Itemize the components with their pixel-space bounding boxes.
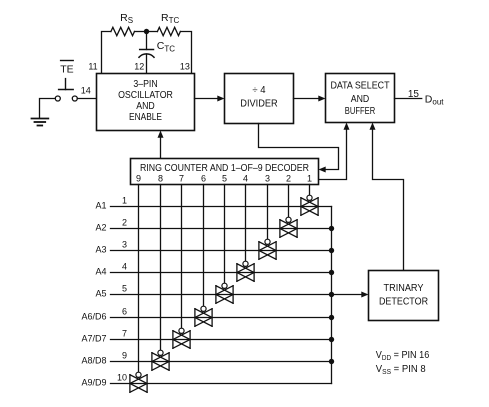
svg-text:7: 7 (122, 329, 127, 339)
wire (pin 13 net: RTC to oscillator pin 13) (180, 32, 191, 74)
svg-text:12: 12 (134, 62, 144, 72)
transmission gate (row A1, decoder output 1) (301, 195, 318, 215)
svg-text:5: 5 (122, 284, 127, 294)
svg-text:5: 5 (222, 174, 227, 184)
transmission gate (row A9/D9, decoder output 9) (130, 372, 147, 392)
svg-text:11: 11 (88, 62, 97, 72)
wire (row A4) (111, 272, 332, 274)
svg-text:A3: A3 (95, 244, 106, 254)
svg-text:3–PIN: 3–PIN (133, 79, 157, 90)
svg-text:1: 1 (122, 196, 127, 206)
svg-text:4: 4 (243, 174, 248, 184)
wire (decoder output 2 column) (288, 185, 290, 218)
svg-text:A6/D6: A6/D6 (81, 311, 106, 321)
wire (pin 11 net: RS to oscillator pin 11) (102, 32, 111, 74)
wire (decoder output 7 column) (181, 185, 183, 329)
svg-text:AND: AND (136, 101, 155, 112)
svg-text:1: 1 (307, 174, 312, 184)
svg-text:BUFFER: BUFFER (345, 106, 375, 117)
resistor RTC (157, 12, 180, 36)
wire (decoder output 5 column) (224, 185, 226, 284)
transmission gate (row A2, decoder output 2) (280, 217, 297, 237)
junction (row A6/D6 to bus) (329, 315, 334, 320)
wire (row A7/D7) (111, 339, 332, 341)
wire (divider feedback to ring counter) (259, 124, 339, 170)
junction (row A7/D7 to bus) (329, 337, 334, 342)
block U1: 3-PIN OSCILLATOR AND ENABLE (97, 74, 195, 131)
wire (pin 15 output Dout) (395, 98, 422, 100)
block: divide-by-4 DIVIDER (225, 74, 294, 124)
svg-text:OSCILLATOR: OSCILLATOR (118, 90, 173, 101)
wire (decoder to data select) (319, 128, 347, 180)
svg-text:CTC: CTC (157, 40, 175, 53)
wire (node to RTC) (146, 31, 157, 33)
wire (RS to node) (135, 31, 147, 33)
svg-text:Dout: Dout (425, 93, 444, 106)
svg-text:2: 2 (122, 218, 127, 228)
block: TRINARY DETECTOR (369, 271, 439, 321)
wire (row A9/D9) (111, 383, 332, 385)
wire (bus to trinary detector) (332, 294, 364, 296)
svg-text:A2: A2 (95, 222, 106, 232)
wire (decoder output 1 column) (309, 185, 311, 196)
svg-text:RING COUNTER AND 1–OF–9 DECODE: RING COUNTER AND 1–OF–9 DECODER (140, 163, 309, 174)
svg-text:AND: AND (351, 94, 370, 105)
svg-text:DIVIDER: DIVIDER (240, 98, 277, 109)
wire (row A6/D6) (111, 317, 332, 319)
wire (divider to data select) (294, 98, 321, 100)
svg-text:9: 9 (122, 351, 127, 361)
svg-text:A8/D8: A8/D8 (81, 355, 106, 365)
svg-text:4: 4 (122, 262, 127, 272)
capacitor CTC (139, 32, 175, 74)
wire (row A2) (111, 228, 332, 230)
svg-text:TRINARY: TRINARY (384, 283, 424, 294)
transmission gate (row A4, decoder output 4) (237, 261, 254, 281)
junction (row A4 to bus) (329, 270, 334, 275)
resistor RS (111, 12, 135, 36)
transmission gate (row A6/D6, decoder output 6) (195, 306, 212, 326)
junction (row A3 to bus) (329, 248, 334, 253)
wire (row A3) (111, 250, 332, 252)
transmission gate (row A7/D7, decoder output 7) (173, 328, 190, 348)
node (RS / RTC / CTC junction) (144, 29, 149, 34)
svg-text:6: 6 (201, 174, 206, 184)
svg-text:15: 15 (408, 89, 420, 100)
transmission gate (row A3, decoder output 3) (259, 239, 276, 259)
svg-text:VSS = PIN 8: VSS = PIN 8 (376, 364, 426, 376)
wire (row A5) (111, 294, 332, 296)
wire (row A8/D8) (111, 361, 332, 363)
svg-text:8: 8 (158, 174, 163, 184)
wire (switch to ground) (40, 99, 56, 118)
svg-text:A9/D9: A9/D9 (81, 377, 106, 387)
wire (trinary detector to data select) (373, 128, 404, 271)
transmission gate (row A8/D8, decoder output 8) (152, 350, 169, 370)
junction (row A5 to bus) (329, 292, 334, 297)
svg-text:3: 3 (122, 240, 127, 250)
wire (decoder output 9 column) (138, 185, 140, 373)
ground (32, 119, 49, 126)
svg-text:9: 9 (136, 174, 141, 184)
wire (decoder output 8 column) (160, 185, 162, 351)
svg-text:DATA SELECT: DATA SELECT (330, 81, 389, 92)
wire (output bus) (331, 207, 333, 384)
svg-text:13: 13 (180, 62, 190, 72)
svg-text:A5: A5 (95, 288, 106, 298)
svg-text:A4: A4 (95, 266, 106, 276)
svg-text:RTC: RTC (161, 12, 179, 25)
junction (row A8/D8 to bus) (329, 359, 334, 364)
wire (decoder output 3 column) (267, 185, 269, 240)
svg-text:÷ 4: ÷ 4 (252, 85, 265, 96)
switch TE (pushbutton) (55, 61, 77, 102)
svg-text:10: 10 (117, 373, 127, 383)
svg-text:DETECTOR: DETECTOR (379, 297, 428, 308)
svg-text:TE: TE (60, 64, 73, 76)
wire (oscillator to divider) (195, 98, 220, 100)
transmission gate (row A5, decoder output 5) (216, 283, 233, 303)
svg-text:6: 6 (122, 307, 127, 317)
wire (decoder output 6 column) (203, 185, 205, 307)
wire (ring counter to oscillator enable) (160, 136, 162, 159)
svg-text:ENABLE: ENABLE (129, 112, 162, 123)
svg-text:3: 3 (265, 174, 270, 184)
wire (pin 14: switch to oscillator) (77, 98, 96, 100)
wire (row A1) (111, 206, 332, 208)
block: DATA SELECT AND BUFFER (326, 74, 395, 123)
junction (row A2 to bus) (329, 226, 334, 231)
svg-text:14: 14 (81, 86, 91, 96)
svg-text:RS: RS (120, 12, 133, 25)
svg-text:A7/D7: A7/D7 (81, 333, 106, 343)
svg-text:7: 7 (179, 174, 184, 184)
svg-text:A1: A1 (95, 200, 106, 210)
wire (decoder output 4 column) (245, 185, 247, 262)
svg-text:2: 2 (286, 174, 291, 184)
svg-text:VDD = PIN 16: VDD = PIN 16 (376, 350, 430, 362)
block: RING COUNTER AND 1-OF-9 DECODER (131, 159, 319, 185)
